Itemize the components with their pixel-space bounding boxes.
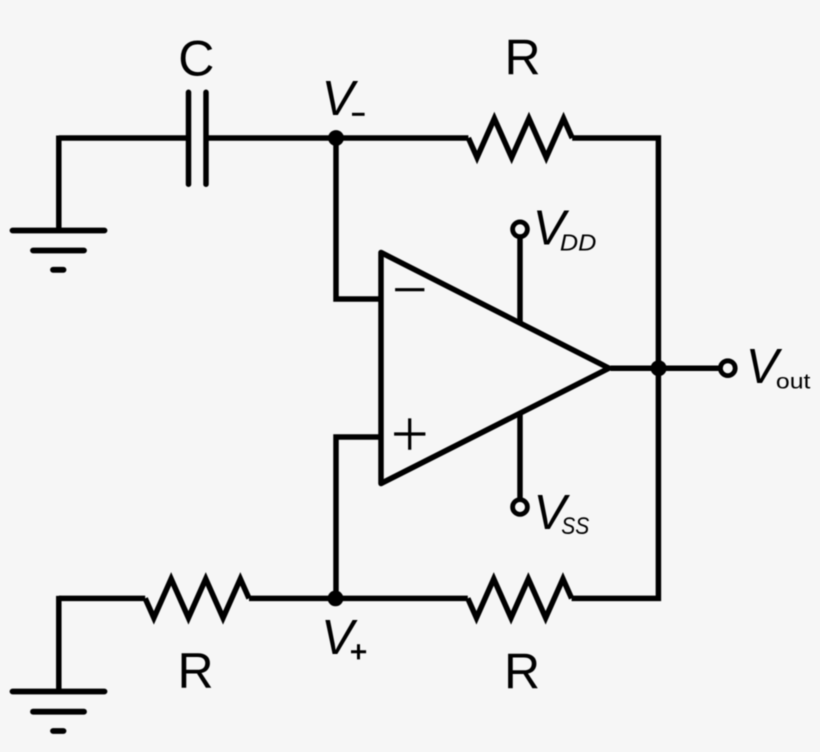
resistor R (bottom-left) zigzag bbox=[145, 579, 249, 618]
ground (bottom-left), bar 3 bbox=[53, 728, 64, 734]
wire: op-amp output to Vout terminal bbox=[611, 365, 720, 371]
wire: from node V+ up and into non-inverting input bbox=[336, 437, 383, 598]
Vout terminal open circle bbox=[720, 361, 735, 376]
wire: top rail, left segment from ground drop to capacitor left plate bbox=[59, 135, 186, 141]
wire: bottom rail, left ground drop to resistor R (bottom-left) bbox=[59, 596, 145, 602]
wire: VDD stub from pin circle down to op-amp top edge bbox=[517, 232, 523, 322]
wire: left vertical drop from bottom rail to bottom ground bbox=[56, 596, 62, 692]
svg-text:DD: DD bbox=[560, 229, 597, 255]
output node junction dot bbox=[651, 360, 667, 376]
label V- bbox=[322, 72, 365, 126]
VDD pin open circle bbox=[513, 222, 528, 237]
op-amp U1 triangle bbox=[381, 253, 609, 484]
ground (top-left), bar 1 bbox=[13, 228, 105, 234]
label VDD bbox=[533, 201, 597, 255]
ground (top-left), bar 2 bbox=[33, 248, 84, 254]
svg-text:V: V bbox=[321, 611, 358, 665]
svg-text:V: V bbox=[322, 72, 359, 126]
wire: top rail right segment, right vertical rail, bottom-right segment (one polyline) bbox=[572, 138, 659, 598]
wire: from node V- down and into inverting input bbox=[336, 138, 383, 299]
label Vout bbox=[746, 340, 811, 394]
wire: VSS stub from op-amp bottom edge down to pin circle bbox=[517, 414, 523, 504]
VSS pin open circle bbox=[513, 500, 528, 515]
wire: top rail, node V- to resistor R (top) bbox=[336, 135, 468, 141]
svg-text:out: out bbox=[776, 369, 811, 393]
ground (bottom-left), bar 1 bbox=[13, 689, 105, 695]
label VSS bbox=[534, 486, 590, 540]
op-amp non-inverting input plus sign bbox=[394, 418, 425, 449]
svg-text:C: C bbox=[178, 31, 214, 87]
resistor R (top feedback) zigzag bbox=[468, 119, 572, 158]
label V+ bbox=[321, 611, 366, 665]
op-amp inverting input minus sign bbox=[395, 288, 424, 291]
ground (bottom-left), bar 2 bbox=[33, 709, 84, 715]
node V+ junction dot bbox=[328, 591, 344, 607]
svg-text:R: R bbox=[178, 643, 214, 699]
wire: bottom rail, resistor to node V+ bbox=[249, 596, 336, 602]
capacitor C, left plate bbox=[186, 92, 192, 184]
node V- junction dot bbox=[328, 130, 344, 146]
svg-text:R: R bbox=[504, 644, 540, 700]
resistor R (bottom-right) zigzag bbox=[468, 579, 572, 618]
wire: top rail, capacitor right plate to node V- bbox=[206, 135, 336, 141]
capacitor C, right plate bbox=[203, 92, 209, 184]
wire: bottom rail, node V+ to resistor R (bottom-right) bbox=[336, 596, 468, 602]
svg-text:R: R bbox=[504, 30, 540, 86]
wire: left vertical drop from top rail to top ground bbox=[56, 136, 62, 231]
ground (top-left), bar 3 bbox=[53, 267, 64, 273]
svg-text:SS: SS bbox=[561, 513, 589, 540]
